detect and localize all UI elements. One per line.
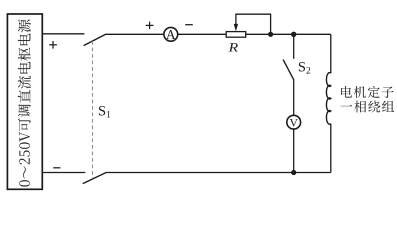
wire ammeter to rheostat	[178, 33, 226, 35]
wire top S1 to ammeter	[106, 33, 164, 35]
bottom wire from supply to S1	[42, 172, 85, 174]
node dot at S2 branch top	[291, 32, 296, 37]
rheostat wiper arrowhead	[234, 24, 238, 31]
rheostat wiper arm wire	[236, 14, 271, 34]
wire rheostat to right corner	[246, 33, 331, 35]
svg-text:R: R	[227, 41, 238, 55]
switch S1 bottom blade	[83, 172, 107, 183]
svg-text:A: A	[166, 27, 176, 42]
label + at supply positive terminal	[49, 44, 57, 46]
switch S2 blade	[283, 60, 293, 80]
S1 gang dashed link	[92, 41, 94, 179]
svg-text:V: V	[289, 115, 298, 129]
wire top from supply to S1	[42, 33, 84, 35]
label - at ammeter right	[185, 24, 193, 26]
bottom wire S1 to right corner	[107, 172, 331, 174]
label + at ammeter left	[146, 24, 154, 26]
ammeter circle	[164, 27, 178, 41]
voltmeter circle	[287, 115, 301, 129]
supply box rotated label 0~250V adjustable DC armature supply	[18, 19, 31, 186]
power supply box	[7, 14, 42, 189]
node dot at voltmeter bottom junction	[291, 170, 296, 175]
inductor coil (motor stator winding)	[326, 73, 330, 125]
right branch vertical upper	[330, 34, 332, 73]
wire voltmeter to bottom	[293, 129, 295, 172]
node dot at rheostat tap	[268, 32, 273, 37]
label - at supply negative terminal	[53, 167, 60, 169]
wire S2 to voltmeter	[293, 79, 295, 115]
rheostat R body	[226, 32, 246, 38]
switch S2 top stub	[293, 34, 295, 59]
right branch vertical lower	[330, 124, 332, 173]
switch S1 top blade	[84, 34, 106, 45]
motor stator label line 2	[341, 101, 395, 113]
motor stator label line 1	[341, 86, 394, 98]
